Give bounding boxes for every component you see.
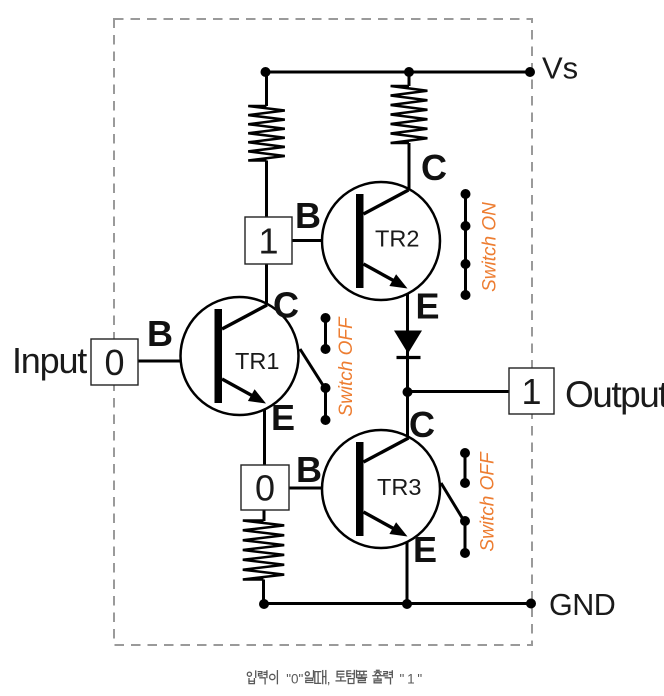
svg-text:,: , [327, 672, 331, 687]
svg-text:B: B [147, 313, 173, 354]
svg-text:Output: Output [565, 374, 664, 415]
svg-text:"1": "1" [400, 672, 426, 687]
svg-text:"0": "0" [286, 672, 303, 687]
svg-text:Switch OFF: Switch OFF [478, 451, 499, 552]
svg-text:GND: GND [549, 588, 615, 622]
svg-text:E: E [416, 286, 440, 327]
svg-text:TR3: TR3 [377, 474, 421, 500]
svg-text:E: E [413, 529, 437, 570]
svg-text:TR2: TR2 [375, 226, 419, 252]
svg-text:B: B [295, 195, 321, 236]
svg-text:C: C [409, 404, 435, 445]
svg-text:C: C [273, 285, 299, 326]
svg-text:Input: Input [12, 340, 87, 381]
svg-text:Vs: Vs [542, 51, 578, 86]
svg-text:Switch OFF: Switch OFF [336, 316, 357, 417]
svg-text:0: 0 [104, 342, 124, 383]
svg-text:Switch ON: Switch ON [480, 202, 501, 292]
svg-text:0: 0 [255, 468, 275, 509]
svg-text:C: C [421, 147, 447, 188]
svg-text:1: 1 [521, 371, 541, 412]
svg-text:1: 1 [258, 221, 278, 262]
svg-text:B: B [296, 449, 322, 490]
svg-text:E: E [271, 397, 295, 438]
svg-text:TR1: TR1 [235, 348, 279, 374]
